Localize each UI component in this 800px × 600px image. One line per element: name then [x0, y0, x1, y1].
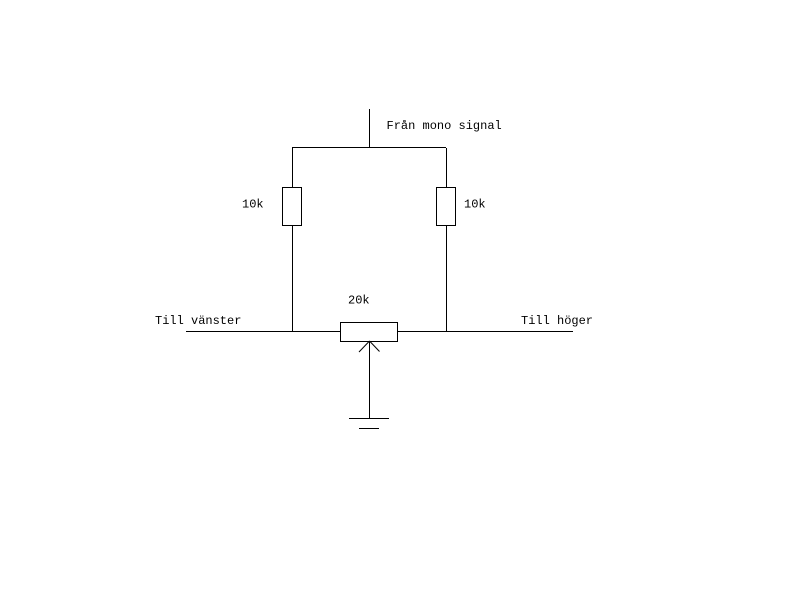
svg-text:10k: 10k — [464, 198, 486, 212]
svg-text:Till höger: Till höger — [521, 314, 593, 328]
wiper arrowhead left stroke — [359, 341, 370, 352]
wire: left output (Till vänster) — [186, 331, 340, 333]
wiper arrowhead right stroke — [370, 341, 380, 352]
wire: R2 bottom to right output line — [446, 225, 448, 331]
ground bar 1 — [349, 418, 389, 420]
svg-text:Från mono signal: Från mono signal — [387, 119, 502, 133]
wire: R1 bottom to left output line — [292, 225, 294, 331]
wire: mono signal input vertical — [369, 109, 371, 148]
wire: right branch down to R2 — [446, 148, 448, 187]
wire: wiper vertical to ground — [369, 341, 371, 418]
wire: left branch down to R1 — [292, 148, 294, 187]
svg-text:10k: 10k — [242, 198, 264, 212]
resistor R1 10k (left) — [283, 188, 302, 226]
svg-text:20k: 20k — [348, 294, 370, 308]
potentiometer P1 20k body — [341, 323, 398, 342]
wire: top horizontal bus — [292, 147, 446, 149]
ground bar 2 — [359, 428, 379, 430]
svg-text:Till vänster: Till vänster — [155, 314, 241, 328]
wire: right output (Till höger) — [398, 331, 573, 333]
resistor R2 10k (right) — [437, 188, 456, 226]
